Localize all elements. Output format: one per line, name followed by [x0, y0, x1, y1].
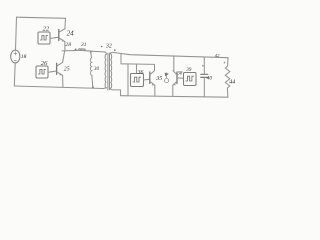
svg-text:38: 38: [177, 72, 183, 77]
pulse source box 36: [131, 74, 144, 87]
wire secondary bottom lead: [110, 88, 120, 95]
svg-text:18: 18: [21, 54, 27, 60]
wire emitter Q25 down to rail: [62, 75, 64, 87]
wire right edge top: [227, 58, 229, 66]
node dot 29: [75, 49, 77, 51]
wire top rail left: [17, 17, 66, 18]
resistor R44: [225, 66, 230, 88]
svg-text:36: 36: [137, 70, 144, 76]
wire corner into transformer: [104, 52, 106, 54]
svg-text:30: 30: [94, 66, 100, 72]
junction dot on rail: [92, 86, 94, 88]
svg-text:32: 32: [105, 44, 112, 50]
transistor Q24: [58, 30, 60, 41]
svg-text:44: 44: [229, 79, 235, 86]
wire collector drop Q38: [173, 56, 175, 71]
wire vertical to bottom rail: [127, 64, 129, 96]
label lead dot 32a: [101, 46, 103, 48]
pulse source box 39: [184, 73, 197, 86]
wire base lead Q24: [50, 37, 59, 38]
wire emitter Q38 to rail: [172, 85, 174, 96]
wire base lead Q25: [48, 71, 56, 72]
wire center line: [62, 50, 104, 52]
capacitor C40: [201, 73, 208, 75]
svg-text:28: 28: [65, 42, 71, 48]
pulse source box 26: [36, 66, 48, 78]
wire top rail right: [110, 52, 228, 57]
wire bottom rail right: [121, 96, 229, 98]
node dot above cap: [202, 65, 204, 67]
svg-text:42: 42: [215, 53, 220, 58]
wire base lead Q35: [144, 78, 150, 81]
battery source B18: [11, 50, 20, 63]
transformer T32 secondary: [110, 54, 111, 89]
transistor Q38: [176, 72, 178, 84]
wire box36 top lead: [136, 64, 138, 73]
wire base lead Q38: [177, 77, 183, 79]
svg-text:35: 35: [155, 76, 162, 82]
transformer core: [107, 53, 109, 89]
svg-text:24: 24: [67, 30, 75, 38]
transformer T32 primary: [105, 54, 106, 88]
wire emitter Q24 down: [64, 42, 66, 51]
node dot above resistor: [224, 62, 226, 64]
wire primary bottom: [103, 87, 106, 90]
wire collector Q24 to rail: [64, 18, 67, 29]
wire collector Q25 up to node: [63, 51, 65, 62]
wire mid branch: [121, 54, 155, 65]
wire cap bottom lead: [203, 78, 205, 97]
transistor Q25: [56, 63, 58, 74]
junction dot: [90, 51, 92, 53]
wire emitter Q35 to rail: [154, 85, 156, 96]
svg-text:40: 40: [207, 75, 213, 81]
svg-text:39: 39: [186, 68, 192, 73]
wire junction to inductor L30: [90, 52, 93, 58]
svg-text:26: 26: [41, 60, 48, 67]
svg-text:22: 22: [43, 26, 50, 33]
wire L30 to bottom rail: [92, 75, 93, 88]
wire left vertical lower: [13, 63, 16, 86]
inductor L31: [79, 49, 86, 51]
transistor Q35: [149, 72, 151, 84]
label lead dot 32b: [114, 49, 116, 51]
svg-text:25: 25: [64, 67, 70, 73]
wire bottom rail left: [14, 86, 103, 89]
wire right edge bottom: [226, 88, 229, 97]
wire collector Q35: [154, 64, 156, 70]
inductor L30: [90, 58, 92, 75]
wire cap top lead: [203, 57, 205, 74]
wire left vertical upper: [16, 17, 17, 50]
diode glyph D34: [166, 73, 168, 78]
svg-text:31: 31: [80, 42, 87, 48]
pulse source box 22: [38, 32, 50, 44]
